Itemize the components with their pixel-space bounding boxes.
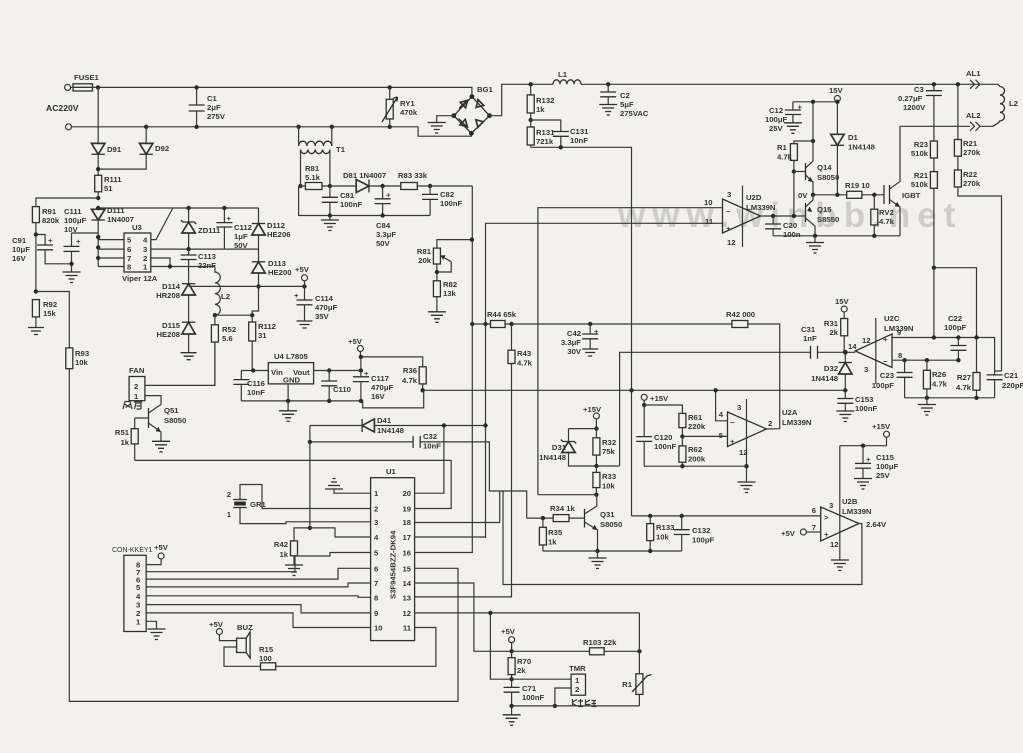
svg-text:C81: C81 [340, 191, 355, 200]
svg-text:R15: R15 [259, 645, 274, 654]
capacitor C3 [933, 84, 935, 90]
svg-text:U3: U3 [132, 223, 142, 232]
svg-text:100n: 100n [783, 230, 801, 239]
svg-text:820k: 820k [42, 216, 60, 225]
svg-text:GND: GND [283, 376, 301, 385]
svg-text:HR208: HR208 [156, 291, 181, 300]
svg-text:+: + [730, 437, 735, 446]
svg-text:12: 12 [402, 609, 411, 618]
wire U1 pin12 T-branch [490, 613, 511, 679]
wire U3 pin3 row [151, 248, 259, 250]
ground under C153 [836, 411, 854, 422]
capacitor C1 [196, 87, 198, 105]
svg-text:IGBT: IGBT [902, 191, 921, 200]
svg-text:U2D: U2D [746, 193, 762, 202]
svg-text:1: 1 [575, 676, 580, 685]
svg-text:S3F9454BZZ-DK94: S3F9454BZZ-DK94 [389, 530, 398, 599]
svg-text:L1: L1 [558, 70, 568, 79]
svg-text:−: − [883, 357, 888, 366]
svg-text:+: + [48, 236, 53, 245]
svg-text:C22: C22 [948, 314, 962, 323]
ground under C12 [784, 123, 802, 134]
svg-text:275VAC: 275VAC [620, 109, 649, 118]
svg-text:C1: C1 [207, 94, 218, 103]
wire U1 pin16 sense [415, 552, 473, 555]
wire U2D inverting input [538, 208, 723, 495]
resistor R43 [415, 324, 512, 597]
svg-text:R61: R61 [688, 413, 703, 422]
wire U2A inverting input [716, 390, 728, 421]
resistor R42 000 [732, 321, 748, 328]
wire U2D output to driver [761, 215, 806, 217]
svg-text:100pF: 100pF [692, 536, 715, 545]
resistor R34 [415, 491, 585, 523]
svg-text:470k: 470k [400, 108, 418, 117]
svg-text:S8050: S8050 [817, 173, 839, 182]
capacitor C115 [862, 446, 864, 464]
node dots U3 input column [96, 206, 100, 210]
wire D113 output row [256, 284, 260, 288]
svg-text:U1: U1 [386, 467, 397, 476]
wire key row to U1 pin10 [146, 613, 370, 628]
svg-text:3.3μF: 3.3μF [376, 230, 396, 239]
svg-text:6: 6 [812, 506, 816, 515]
svg-text:2: 2 [575, 685, 579, 694]
wire TMR pin2 [555, 688, 571, 706]
resistor RV2 [872, 193, 876, 197]
wire U1 pin17 sense [415, 536, 486, 539]
svg-text:C114: C114 [315, 294, 334, 303]
sensor TMR [571, 674, 585, 695]
svg-text:1: 1 [134, 392, 139, 401]
resistor R27 [976, 338, 978, 398]
svg-text:L2: L2 [221, 292, 230, 301]
svg-text:R81: R81 [305, 164, 320, 173]
svg-text:6: 6 [374, 564, 378, 573]
wire R111 to R91 [96, 196, 100, 200]
wire driver emitter row [773, 235, 900, 237]
ground under Q31 [597, 551, 599, 558]
svg-text:C23: C23 [880, 371, 894, 380]
wire voltage sense to comparator chain [531, 147, 632, 516]
svg-text:3: 3 [864, 365, 868, 374]
svg-text:510k: 510k [911, 149, 929, 158]
svg-text:CON-KKEY1: CON-KKEY1 [112, 547, 153, 554]
svg-text:R34 1k: R34 1k [550, 504, 576, 513]
svg-text:GR1: GR1 [250, 500, 267, 509]
svg-text:7: 7 [374, 579, 378, 588]
capacitor C112 [223, 208, 225, 223]
resistor R93 and sense loop wire [36, 292, 458, 702]
svg-text:U2C: U2C [884, 314, 900, 323]
svg-text:C131: C131 [570, 127, 589, 136]
diode chain D112/D113 [258, 208, 260, 224]
wire U1 pin12 temperature row [415, 612, 640, 614]
diode D91 [97, 87, 99, 143]
svg-text:18: 18 [402, 518, 411, 527]
wire +5V row to R36 [361, 357, 423, 367]
capacitor C153 [844, 390, 846, 398]
resistor R111 [96, 167, 100, 171]
svg-text:17: 17 [402, 533, 411, 542]
svg-text:11: 11 [705, 217, 714, 226]
resistor R21 270k [957, 84, 959, 139]
svg-text:BG1: BG1 [477, 85, 494, 94]
capacitor C116 [240, 371, 242, 380]
zener ZD111 [188, 208, 190, 222]
svg-text:10k: 10k [656, 533, 670, 542]
wire R70 node to TMR pin1 [512, 678, 571, 680]
resistor R32 [593, 438, 600, 455]
svg-text:8: 8 [127, 263, 132, 272]
svg-text:D32: D32 [824, 364, 838, 373]
svg-text:3: 3 [374, 518, 378, 527]
svg-text:510k: 510k [911, 180, 929, 189]
svg-text:L2: L2 [1009, 99, 1018, 108]
svg-text:R62: R62 [688, 445, 702, 454]
svg-text:3: 3 [143, 245, 147, 254]
svg-text:220pF: 220pF [1002, 381, 1023, 390]
node 14 junction [843, 350, 848, 355]
terminal +5V at R70 [509, 637, 515, 643]
svg-text:15V: 15V [829, 86, 844, 95]
svg-text:C32: C32 [423, 432, 437, 441]
svg-text:1: 1 [227, 510, 232, 519]
svg-text:10nF: 10nF [247, 388, 265, 397]
svg-text:+: + [294, 291, 299, 300]
svg-text:C2: C2 [620, 91, 630, 100]
resistor R92 [34, 289, 38, 293]
svg-text:R35: R35 [548, 528, 563, 537]
wire U2B pin6 input row [632, 515, 821, 517]
svg-text:10: 10 [704, 198, 713, 207]
resistor R51 [135, 418, 149, 460]
wire AL2 row [900, 125, 993, 127]
svg-text:7: 7 [812, 523, 816, 532]
svg-text:6: 6 [127, 245, 131, 254]
svg-text:2: 2 [134, 382, 138, 391]
svg-text:HE206: HE206 [267, 230, 291, 239]
svg-text:S8550: S8550 [817, 215, 839, 224]
svg-text:R32: R32 [602, 438, 616, 447]
resistor R91 [32, 207, 39, 223]
transistor IGBT [883, 185, 885, 204]
connector AL1 chevrons [970, 80, 980, 89]
wire U2C pin8 row [892, 359, 958, 361]
svg-text:25V: 25V [876, 471, 891, 480]
svg-text:5: 5 [136, 583, 141, 592]
capacitor C20 [772, 216, 774, 224]
wire key row to U1 pin9 [146, 605, 370, 613]
ground at bridge [437, 116, 454, 123]
regulator U4 L7805 [268, 363, 313, 384]
wire RC network ground row [905, 397, 995, 399]
svg-text:C20: C20 [783, 221, 797, 230]
svg-text:D91: D91 [107, 145, 122, 154]
svg-text:2.64V: 2.64V [866, 520, 887, 529]
svg-text:+15V: +15V [650, 394, 669, 403]
terminal +5V at CON pin8 [146, 559, 161, 565]
svg-text:10nF: 10nF [423, 442, 441, 451]
ground under R42 [285, 565, 303, 576]
wire R33 node to U2D sense vertical [594, 493, 598, 497]
svg-text:R70: R70 [517, 657, 531, 666]
svg-text:LM339N: LM339N [746, 203, 776, 212]
wire L2/R52/R112 row [213, 313, 217, 317]
svg-text:RV2: RV2 [879, 208, 894, 217]
svg-text:+5V: +5V [154, 543, 169, 552]
wire Q31 emitter ground row [543, 550, 682, 552]
svg-text:2k: 2k [829, 328, 838, 337]
crystal GR1 [240, 485, 371, 509]
svg-text:3.3μF: 3.3μF [561, 338, 581, 347]
svg-text:D113: D113 [268, 259, 286, 268]
svg-text:22nF: 22nF [198, 261, 216, 270]
op-amp U2D [723, 199, 761, 233]
ground under C114 [297, 321, 313, 328]
svg-text:+: + [76, 237, 81, 246]
svg-text:4.7k: 4.7k [517, 359, 533, 368]
ground under R26 [926, 398, 928, 405]
svg-text:C71: C71 [522, 684, 537, 693]
potentiometer R81 20k [433, 248, 440, 264]
wire U3 pin1 row to L2 [151, 266, 215, 268]
svg-text:C3: C3 [914, 85, 924, 94]
svg-text:12: 12 [830, 540, 839, 549]
ground under C91/C111 [69, 262, 73, 266]
svg-text:100μF: 100μF [64, 216, 87, 225]
svg-text:8: 8 [374, 593, 379, 602]
svg-text:R81: R81 [417, 247, 432, 256]
capacitor C82 [428, 184, 432, 188]
svg-text:+15V: +15V [872, 422, 891, 431]
svg-text:1N4148: 1N4148 [811, 374, 839, 383]
svg-text:T1: T1 [336, 145, 346, 154]
svg-text:4.7k: 4.7k [777, 153, 793, 162]
svg-text:C153: C153 [855, 395, 873, 404]
svg-text:R21: R21 [963, 139, 978, 148]
svg-text:+5V: +5V [348, 337, 363, 346]
transistor Q31 S8050 [584, 509, 586, 528]
svg-text:100nF: 100nF [440, 199, 463, 208]
svg-text:16V: 16V [371, 392, 386, 401]
svg-text:100pF: 100pF [872, 381, 895, 390]
ground under D115 [181, 353, 197, 360]
svg-text:D92: D92 [155, 144, 169, 153]
svg-text:D31: D31 [552, 443, 567, 452]
resistor R31 [843, 312, 845, 352]
svg-text:5.1k: 5.1k [305, 173, 321, 182]
wire U2C pin9 row [892, 338, 995, 372]
svg-text:3: 3 [737, 403, 741, 412]
wire 15V row [793, 101, 838, 103]
capacitor C71 [511, 679, 513, 687]
ground under C42 [582, 349, 598, 356]
resistor R26 [926, 360, 928, 398]
capacitor C110 [328, 371, 330, 382]
svg-text:13k: 13k [443, 289, 457, 298]
capacitor C21 [995, 371, 1002, 375]
op-amp U2A [728, 412, 767, 447]
svg-text:1: 1 [136, 617, 141, 626]
resistor R62 [679, 446, 686, 462]
svg-text:3: 3 [727, 190, 731, 199]
svg-text:R83 33k: R83 33k [398, 171, 428, 180]
wire main sense row to D32 [423, 389, 846, 391]
diode D81 [330, 185, 401, 187]
capacitor C31 [810, 346, 812, 359]
svg-text:1k: 1k [279, 550, 288, 559]
svg-text:C12: C12 [769, 106, 783, 115]
resistor R52 [214, 315, 216, 385]
svg-text:R131: R131 [536, 128, 555, 137]
svg-text:C120: C120 [654, 433, 672, 442]
svg-text:4.7k: 4.7k [932, 380, 948, 389]
terminal +15V for R32 [593, 413, 599, 419]
svg-text:R103 22k: R103 22k [583, 638, 617, 647]
svg-text:RY1: RY1 [400, 99, 415, 108]
wire R22 to C21 branch [958, 187, 1002, 371]
op-amp U2C [855, 334, 892, 368]
svg-text:D41: D41 [377, 416, 392, 425]
svg-text:5.6: 5.6 [222, 334, 233, 343]
svg-text:R27: R27 [957, 373, 971, 382]
capacitor C32 [308, 440, 312, 444]
svg-text:10nF: 10nF [570, 136, 588, 145]
svg-text:100: 100 [259, 654, 272, 663]
resistor R82 [436, 264, 438, 312]
svg-text:R42 000: R42 000 [726, 310, 755, 319]
svg-text:TMR: TMR [569, 664, 586, 673]
wire R61/R62 tap to U2A + [680, 434, 684, 438]
capacitor C117 [360, 357, 362, 377]
capacitor C81 [328, 184, 332, 188]
capacitor C2 [607, 84, 609, 92]
wire U4 input row [241, 370, 268, 372]
svg-text:R52: R52 [222, 325, 236, 334]
wire R42 node to U1 pin4 [310, 528, 371, 537]
ground under C2 [599, 105, 617, 116]
svg-text:10: 10 [374, 624, 383, 633]
svg-text:R36: R36 [403, 366, 417, 375]
svg-text:C116: C116 [247, 379, 265, 388]
wire U2D noninverting input [486, 223, 723, 538]
svg-text:R91: R91 [42, 207, 57, 216]
svg-text:1k: 1k [548, 538, 557, 547]
IC U1 MCU [371, 478, 415, 641]
svg-text:8: 8 [898, 351, 903, 360]
wire U1 pin19 from C32 [415, 460, 452, 508]
svg-text:5: 5 [374, 549, 379, 558]
svg-text:4.7k: 4.7k [402, 376, 418, 385]
resistor R36 [419, 367, 426, 384]
ground under Q51 [152, 441, 170, 452]
svg-text:9: 9 [374, 609, 378, 618]
resistor R33 [593, 472, 600, 487]
wire fan control row [135, 459, 452, 461]
speaker BUZ [216, 629, 222, 635]
svg-text:Q14: Q14 [817, 163, 832, 172]
svg-text:R31: R31 [824, 319, 839, 328]
diode D41 [310, 426, 486, 442]
svg-text:C113: C113 [198, 252, 216, 261]
resistor R23 [930, 141, 937, 158]
ground under C71 [511, 706, 513, 715]
connector AL2 chevrons [970, 122, 980, 131]
connector FAN [129, 377, 145, 401]
fuse FUSE1 [65, 84, 71, 90]
svg-text:S8050: S8050 [164, 416, 186, 425]
svg-text:C112: C112 [234, 223, 252, 232]
svg-text:51: 51 [104, 184, 113, 193]
svg-text:100nF: 100nF [340, 200, 363, 209]
capacitor C120 [643, 405, 645, 437]
wire U1 pin20 from D41 [415, 426, 444, 494]
svg-text:1200V: 1200V [903, 103, 926, 112]
svg-text:Viper 12A: Viper 12A [122, 274, 158, 283]
IC U3 Viper12A [124, 233, 151, 272]
resistor R19 [813, 194, 884, 196]
transformer T1 [299, 127, 332, 146]
svg-text:13: 13 [402, 593, 411, 602]
svg-text:C132: C132 [692, 526, 710, 535]
capacitor C113 [188, 249, 190, 255]
svg-text:100nF: 100nF [522, 693, 545, 702]
svg-text:+: + [824, 530, 829, 539]
terminal +5V near C114 [302, 284, 306, 288]
wire U1 pin15 to mains sense loop [415, 567, 458, 569]
svg-text:LM339N: LM339N [782, 418, 812, 427]
svg-text:U2A: U2A [782, 408, 798, 417]
svg-text:20k: 20k [418, 256, 432, 265]
svg-text:+: + [227, 214, 232, 223]
wire key row to U1 pin8 [146, 596, 370, 598]
svg-text:+5V: +5V [209, 620, 224, 629]
svg-text:AL1: AL1 [966, 69, 981, 78]
svg-text:2: 2 [227, 490, 231, 499]
ground at CON pin1 [146, 621, 156, 629]
svg-text:C42: C42 [567, 329, 581, 338]
terminal +15V for U2B [884, 431, 890, 437]
wire bridge + output [490, 84, 531, 115]
svg-text:10k: 10k [602, 482, 616, 491]
resistor R131 [529, 118, 533, 122]
svg-text:220k: 220k [688, 422, 706, 431]
resistor R22 270k [954, 170, 961, 187]
wire C32 node to R42 [309, 442, 311, 528]
resistor R133 [649, 516, 651, 551]
svg-text:D111: D111 [107, 206, 125, 215]
wire U1 pin11 to buzzer [276, 628, 436, 667]
bridge diode glyphs [460, 100, 468, 108]
capacitor C42 [589, 324, 591, 334]
svg-text:+: + [866, 455, 871, 464]
terminal +15V for R61 [641, 394, 647, 400]
wire DC bus rail [531, 83, 998, 85]
svg-text:R111: R111 [104, 175, 122, 184]
capacitor C114 [304, 286, 306, 300]
wire U3 pin4 feedback to C82 node [151, 208, 173, 240]
svg-text:30V: 30V [567, 347, 582, 356]
resistor R103 [512, 650, 640, 652]
svg-text:270k: 270k [963, 148, 981, 157]
svg-text:Q15: Q15 [817, 205, 832, 214]
svg-text:31: 31 [258, 331, 267, 340]
resistor R112 [249, 322, 256, 341]
svg-text:25V: 25V [769, 124, 784, 133]
svg-text:C84: C84 [376, 221, 391, 230]
svg-text:470μF: 470μF [315, 303, 338, 312]
